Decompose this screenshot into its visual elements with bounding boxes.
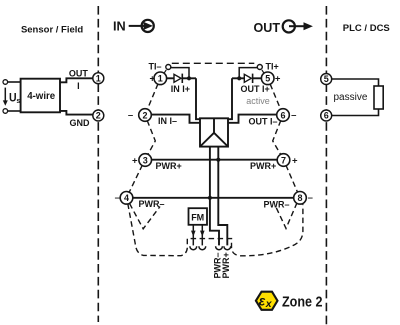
wire PLC loop <box>331 79 378 86</box>
svg-text:OUT I–: OUT I– <box>249 116 278 126</box>
right boundary dashed line <box>325 6 327 325</box>
svg-text:OUT I+: OUT I+ <box>241 84 270 94</box>
dashed link terminal 6 to 7 <box>273 121 281 155</box>
svg-text:6: 6 <box>280 110 285 120</box>
output symbol (arrow out of circle) <box>283 20 313 32</box>
field terminal 2 <box>93 110 104 121</box>
PLC terminal 6 <box>321 110 332 121</box>
node A junction dot <box>187 76 191 80</box>
load resistor <box>374 86 383 109</box>
4-wire transmitter box <box>21 79 60 113</box>
wire source to 4-wire box (top) <box>8 81 21 83</box>
svg-text:8: 8 <box>297 193 302 203</box>
svg-text:s: s <box>16 96 20 105</box>
left boundary dashed line <box>97 6 99 322</box>
dashed TI link line <box>172 62 255 64</box>
wire node A down to isolator <box>196 78 200 119</box>
terminal 7 <box>277 154 290 167</box>
dashed link terminal 2 to 3 <box>147 121 155 155</box>
isolator power lead right (PWR+) <box>218 147 227 246</box>
dashed link terminal 5 to 6 <box>270 84 281 109</box>
dashed link terminal 3 to 4 <box>129 165 142 192</box>
svg-text:4: 4 <box>124 193 129 203</box>
svg-text:2: 2 <box>96 111 101 121</box>
svg-text:IN: IN <box>113 19 126 34</box>
svg-text:5: 5 <box>265 74 270 84</box>
terminal 4 <box>120 192 133 205</box>
PWR- rail <box>133 197 295 199</box>
svg-text:5: 5 <box>324 74 329 84</box>
svg-text:PLC / DCS: PLC / DCS <box>343 23 390 34</box>
svg-text:IN I+: IN I+ <box>171 84 190 94</box>
svg-text:+: + <box>275 74 281 85</box>
FM pin left with arrow <box>191 225 196 246</box>
svg-text:GND: GND <box>70 118 91 128</box>
dashed vee below terminal 8 <box>276 203 297 229</box>
socket cup PWR- <box>216 246 223 249</box>
svg-text:active: active <box>246 96 270 106</box>
svg-text:3: 3 <box>143 155 148 165</box>
terminal 8 <box>294 192 307 205</box>
terminal 3 <box>139 154 152 167</box>
svg-text:PWR+: PWR+ <box>250 161 276 171</box>
TI- test socket hook <box>166 65 171 70</box>
Ex hexagon <box>256 292 278 310</box>
dashed plug outline <box>128 204 303 256</box>
isolator power lead left (PWR-) <box>210 147 219 246</box>
socket cup FM left <box>190 246 197 249</box>
svg-text:Sensor / Field: Sensor / Field <box>21 24 83 35</box>
diode D1 (input) <box>174 74 182 83</box>
svg-text:+: + <box>150 74 156 85</box>
svg-text:I: I <box>77 81 80 91</box>
wire 4-wire box to terminal 1 <box>60 78 93 82</box>
terminal 6 <box>277 109 290 122</box>
wire resistor to terminal 6 <box>331 109 378 116</box>
svg-text:–: – <box>308 193 313 204</box>
svg-text:1: 1 <box>158 74 163 84</box>
FM box <box>189 208 208 225</box>
svg-text:–: – <box>128 110 133 121</box>
wire node A to TI- hook <box>171 68 189 79</box>
svg-text:4-wire: 4-wire <box>27 91 56 102</box>
svg-text:PWR–: PWR– <box>264 199 290 209</box>
svg-text:PWR+: PWR+ <box>221 252 231 278</box>
TI+ test socket hook <box>257 65 262 70</box>
PLC terminal 5 <box>321 74 332 85</box>
wire terminal 6 to isolator <box>228 115 277 123</box>
wire 4-wire box to terminal 2 <box>60 111 93 115</box>
svg-text:–: – <box>291 110 296 121</box>
svg-text:PWR+: PWR+ <box>156 161 182 171</box>
dashed link terminal 7 to 8 <box>286 165 298 192</box>
terminal 5 <box>261 72 274 85</box>
svg-text:OUT: OUT <box>254 20 281 35</box>
svg-text:OUT: OUT <box>69 69 89 79</box>
svg-text:1: 1 <box>96 73 101 83</box>
wire source to 4-wire box (bottom) <box>8 110 21 112</box>
isolator block U1 <box>200 118 228 146</box>
svg-text:+: + <box>292 155 298 166</box>
wire terminal 1 to diode <box>166 77 174 79</box>
svg-text:x: x <box>265 298 273 310</box>
wire diode D2 to terminal 5 <box>253 77 262 79</box>
field terminal 1 <box>93 73 104 84</box>
wire node B to diode D2 <box>232 77 244 79</box>
wire diode to node A <box>182 77 196 79</box>
terminal 2 <box>139 109 152 122</box>
source terminal circle upper <box>3 80 8 85</box>
socket cup FM right <box>199 246 206 249</box>
svg-text:IN I–: IN I– <box>158 116 177 126</box>
junction dot PWR+ <box>216 158 220 162</box>
source terminal circle lower <box>3 109 8 114</box>
junction dot PWR- <box>208 196 212 200</box>
terminal 1 <box>154 72 167 85</box>
svg-text:PWR–: PWR– <box>139 199 165 209</box>
svg-text:6: 6 <box>324 111 329 121</box>
Us source arrow <box>3 88 8 106</box>
wire terminal 2 to isolator <box>151 115 200 123</box>
node B junction dot <box>237 76 241 80</box>
svg-text:–: – <box>115 193 120 204</box>
wire node B to TI+ hook <box>239 68 257 79</box>
wire node B down to isolator <box>228 78 232 119</box>
socket cup PWR+ <box>224 246 231 249</box>
svg-text:passive: passive <box>334 92 368 103</box>
svg-text:+: + <box>132 155 138 166</box>
svg-text:7: 7 <box>281 155 286 165</box>
PWR+ rail <box>151 159 277 161</box>
svg-text:Zone 2: Zone 2 <box>282 293 323 310</box>
svg-text:ε: ε <box>259 294 266 309</box>
FM pin right with arrow <box>200 225 205 246</box>
dashed vee below terminal 4 <box>130 204 160 229</box>
diode D2 (output) <box>244 74 252 83</box>
dashed link terminal 1 to 2 <box>147 84 158 110</box>
svg-text:TI–: TI– <box>149 61 162 71</box>
svg-text:TI+: TI+ <box>266 61 279 71</box>
svg-text:FM: FM <box>191 213 204 223</box>
input symbol (arrow into circle) <box>129 20 154 32</box>
svg-text:2: 2 <box>142 110 147 120</box>
